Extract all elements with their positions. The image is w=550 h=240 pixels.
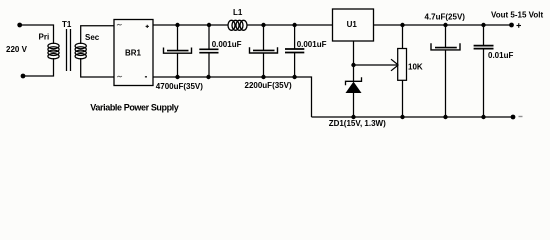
node: C5 bottom junction <box>443 115 447 119</box>
wire: bottom rail <box>312 116 514 118</box>
node: C6 top junction <box>481 23 485 27</box>
inductor L1 <box>228 20 247 30</box>
capacitor C6 0.01uF <box>474 25 494 117</box>
pin ~ top-left <box>117 24 122 25</box>
wire: secondary top to BR1 <box>81 26 114 44</box>
svg-text:Pri: Pri <box>39 33 50 42</box>
svg-text:Sec: Sec <box>85 33 100 42</box>
node: pot top junction <box>400 23 404 27</box>
node: C2 top junction <box>207 23 211 27</box>
capacitor C5 4.7uF <box>431 25 460 117</box>
node: C3 bottom junction <box>261 75 265 79</box>
node: AC bottom terminal <box>21 74 26 79</box>
svg-text:L1: L1 <box>233 8 243 17</box>
node: C1 top junction <box>175 23 179 27</box>
node: pot bottom junction <box>400 115 404 119</box>
capacitor C4 0.001uF <box>285 25 304 77</box>
wire: secondary bottom to BR1 <box>81 58 114 77</box>
svg-text:Variable Power Supply: Variable Power Supply <box>90 103 179 113</box>
capacitor C2 0.001uF <box>199 25 218 77</box>
node: C1 bottom junction <box>175 75 179 79</box>
primary winding Pri <box>48 43 59 59</box>
node: adj junction <box>351 63 355 67</box>
svg-text:0.01uF: 0.01uF <box>488 51 513 60</box>
capacitor C3 2200uF <box>250 25 278 77</box>
core <box>66 29 68 71</box>
node: Vout - terminal <box>511 115 516 120</box>
wire: wiper arrow to pot <box>354 59 399 71</box>
plus sign <box>517 23 522 28</box>
svg-text:2200uF(35V): 2200uF(35V) <box>245 81 292 90</box>
minus sign <box>519 116 523 118</box>
svg-text:10K: 10K <box>408 63 423 72</box>
zener diode ZD1 <box>346 77 362 117</box>
wire: U1 adj pin down <box>353 41 355 81</box>
svg-text:4.7uF(25V): 4.7uF(25V) <box>425 12 466 21</box>
wire: top rail L1 to U1 <box>247 24 333 26</box>
potentiometer 10K <box>398 25 407 117</box>
svg-text:0.001uF: 0.001uF <box>297 40 327 49</box>
wire: AC input bottom <box>23 58 54 76</box>
pin + top-right <box>146 25 149 28</box>
pin - bottom-right <box>145 76 147 78</box>
node: C3 top junction <box>261 23 265 27</box>
bridge rectifier BR1 <box>114 20 153 86</box>
svg-text:T1: T1 <box>62 20 72 29</box>
svg-text:BR1: BR1 <box>125 49 142 58</box>
node: C4 top junction <box>292 23 296 27</box>
capacitor C1 4700uF <box>164 25 192 77</box>
wire: AC input top <box>20 25 54 44</box>
node: C4 bottom junction <box>292 75 296 79</box>
svg-text:Vout 5-15 Volt: Vout 5-15 Volt <box>491 11 543 20</box>
node: ZD1 bottom junction <box>351 115 355 119</box>
svg-text:220 V: 220 V <box>6 45 28 54</box>
transformer T1 <box>48 29 86 71</box>
node: AC top terminal <box>17 23 22 28</box>
wire: top rail BR1 to L1 <box>153 24 228 26</box>
node: C5 top junction <box>443 23 447 27</box>
node: C6 bottom junction <box>481 115 485 119</box>
svg-text:0.001uF: 0.001uF <box>212 40 242 49</box>
node: C2 bottom junction <box>206 75 210 79</box>
wire: top rail U1 to output <box>374 24 512 26</box>
pin ~ bottom-left <box>117 76 122 77</box>
svg-text:U1: U1 <box>347 20 358 29</box>
svg-text:4700uF(35V): 4700uF(35V) <box>156 82 203 91</box>
wire: ground rail from BR1 <box>153 77 312 117</box>
secondary winding Sec <box>75 43 86 59</box>
svg-text:ZD1(15V, 1.3W): ZD1(15V, 1.3W) <box>329 119 386 128</box>
node: Vout + terminal <box>509 23 514 28</box>
regulator U1 <box>333 9 374 41</box>
